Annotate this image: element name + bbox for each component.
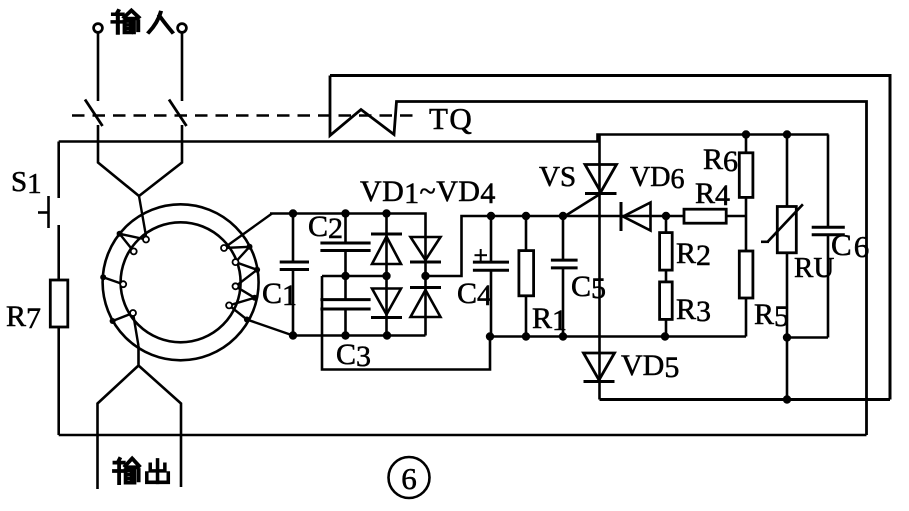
svg-text:TQ: TQ — [429, 101, 473, 136]
svg-text:VD5: VD5 — [621, 349, 679, 384]
svg-text:S1: S1 — [11, 166, 42, 200]
svg-text:VS: VS — [539, 161, 576, 193]
svg-text:RU: RU — [794, 252, 834, 284]
svg-text:C2: C2 — [308, 210, 343, 245]
svg-text:6: 6 — [401, 461, 417, 496]
svg-text:R5: R5 — [754, 298, 789, 333]
svg-text:C5: C5 — [571, 270, 606, 305]
svg-text:R7: R7 — [6, 300, 41, 335]
svg-text:R6: R6 — [703, 143, 738, 178]
svg-text:C1: C1 — [262, 277, 297, 312]
svg-text:C3: C3 — [336, 338, 371, 373]
svg-text:R1: R1 — [532, 302, 567, 337]
svg-text:VD6: VD6 — [630, 162, 684, 195]
svg-text:VD1~VD4: VD1~VD4 — [360, 175, 496, 210]
svg-text:C4: C4 — [457, 277, 492, 312]
svg-text:R4: R4 — [695, 177, 730, 212]
svg-text:R3: R3 — [676, 293, 711, 328]
svg-text:R2: R2 — [676, 237, 711, 272]
svg-text:C6: C6 — [831, 227, 871, 264]
